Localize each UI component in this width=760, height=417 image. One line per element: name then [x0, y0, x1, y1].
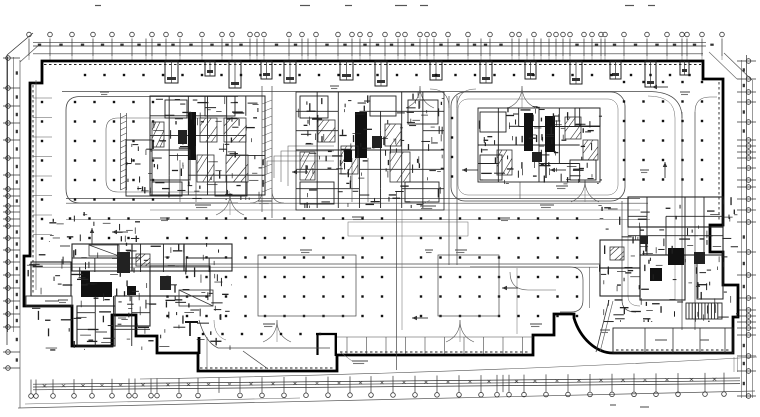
left dimension band [3, 56, 20, 371]
roadway lane lines [33, 80, 717, 370]
building thick outline [24, 61, 738, 371]
annotation text marks [58, 86, 690, 364]
outline inner dashed edge [33, 65, 730, 369]
fire zone boundary rectangles [258, 222, 499, 316]
right dimension band [737, 55, 756, 398]
U-bay inner thick walls [316, 334, 318, 355]
bottom-right unit block walls [596, 197, 738, 372]
column grid dots [41, 74, 703, 335]
parking band [613, 328, 733, 353]
unit cluster B walls [296, 92, 444, 210]
stair stripes [686, 303, 722, 319]
unit rooms along top edge [165, 61, 689, 88]
bottom-left unit block walls [26, 212, 232, 350]
parking stall dividers bottom [33, 98, 533, 354]
top dimension band [27, 6, 725, 61]
unit cluster A walls [126, 96, 265, 202]
bottom dimension band [29, 357, 757, 407]
unit cluster C walls [478, 106, 602, 199]
